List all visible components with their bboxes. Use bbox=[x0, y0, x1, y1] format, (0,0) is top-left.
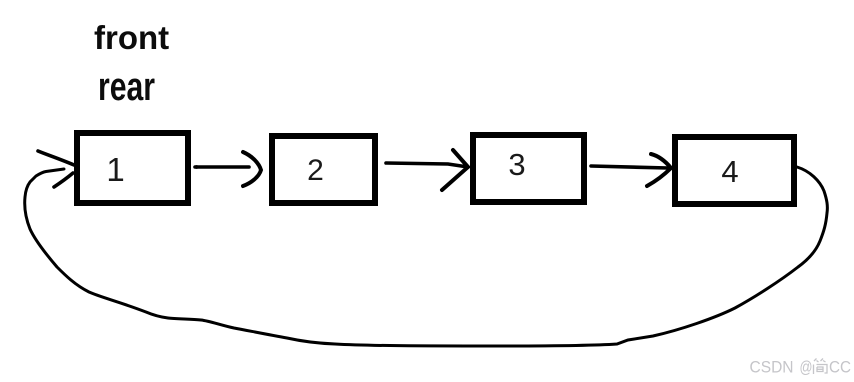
svg-text:front: front bbox=[94, 19, 169, 56]
arrowhead into node 1 bbox=[38, 151, 74, 187]
hand-drawn glyph jian bbox=[814, 359, 828, 375]
svg-text:@: @ bbox=[800, 358, 813, 377]
node box 4 bbox=[675, 137, 794, 204]
svg-text:2: 2 bbox=[307, 154, 324, 187]
watermark CSDN @简CC bbox=[750, 358, 852, 377]
loop wire from node 4 back to node 1 bbox=[25, 167, 828, 346]
svg-text:1: 1 bbox=[106, 151, 124, 188]
svg-text:CC: CC bbox=[829, 358, 851, 377]
svg-text:CSDN: CSDN bbox=[750, 358, 794, 377]
svg-text:rear: rear bbox=[98, 65, 155, 109]
svg-text:3: 3 bbox=[508, 147, 525, 182]
node box 1 bbox=[77, 133, 188, 203]
arrow 1 to 2 bbox=[195, 152, 261, 186]
pen blob at arrow 1 start bbox=[195, 165, 199, 169]
node box 2 bbox=[272, 136, 375, 203]
arrow 2 to 3 bbox=[386, 150, 468, 190]
node box 3 bbox=[473, 135, 584, 202]
arrow 3 to 4 bbox=[591, 154, 671, 186]
svg-text:4: 4 bbox=[721, 154, 738, 189]
